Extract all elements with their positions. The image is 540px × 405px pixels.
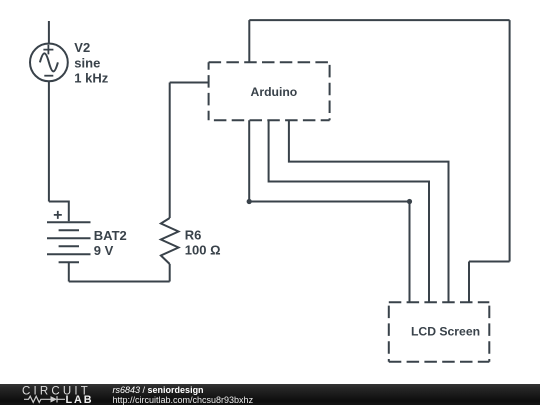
- svg-text:R6: R6: [185, 228, 202, 243]
- battery plus sign: [54, 211, 62, 219]
- wire resistor bottom lead: [169, 264, 171, 282]
- svg-text:sine: sine: [74, 55, 100, 70]
- wire jog left: [469, 261, 510, 263]
- footer bar: [0, 384, 540, 405]
- svg-text:LAB: LAB: [66, 394, 94, 405]
- svg-text:100 Ω: 100 Ω: [185, 243, 221, 258]
- voltage source V2 circle: [30, 44, 68, 82]
- svg-text:Arduino: Arduino: [251, 85, 298, 99]
- wire battery bottom lead: [68, 262, 70, 281]
- wire V2 top lead: [48, 21, 50, 44]
- footer line 1: [113, 386, 204, 396]
- V2 plus sign: [43, 45, 53, 55]
- resistor R6 zigzag: [161, 218, 179, 264]
- svg-text:V2: V2: [74, 40, 90, 55]
- LCD Screen box dashed bottom edge: [389, 361, 490, 363]
- Arduino box dashed bottom edge: [209, 119, 330, 121]
- wire Arduino pin C run: [289, 120, 449, 302]
- svg-text:BAT2: BAT2: [94, 228, 127, 243]
- node junction dot A: [247, 199, 252, 204]
- wire to Arduino left: [170, 82, 209, 84]
- wire bottom run: [69, 281, 170, 283]
- wire down to LCD pin4: [468, 262, 470, 303]
- footer line 2: [113, 396, 254, 405]
- svg-text:9 V: 9 V: [94, 243, 114, 258]
- wire Arduino pin B run: [269, 120, 429, 302]
- CircuitLab logo: [0, 384, 110, 405]
- wire Arduino pin A down: [248, 120, 250, 201]
- svg-text:1 kHz: 1 kHz: [74, 70, 108, 85]
- wire resistor top lead: [169, 83, 171, 219]
- Arduino box dashed left edge: [208, 62, 210, 120]
- battery BAT2 plates: [47, 222, 91, 262]
- LCD Screen box dashed left edge: [388, 302, 390, 362]
- Arduino box dashed right edge: [329, 62, 331, 120]
- Arduino box dashed top edge: [209, 61, 330, 63]
- svg-text:LCD Screen: LCD Screen: [411, 325, 480, 339]
- node junction dot B: [407, 199, 412, 204]
- wire pin A horizontal: [249, 201, 409, 203]
- V2 sine symbol: [40, 53, 58, 71]
- wire top run: [249, 19, 509, 21]
- wire V2 bottom lead: [48, 81, 50, 201]
- LCD Screen box dashed right edge: [488, 302, 490, 362]
- wire jog to battery: [49, 202, 69, 222]
- wire Arduino top pin: [248, 20, 250, 62]
- LCD Screen box dashed top edge: [389, 301, 490, 303]
- wire right run down: [509, 20, 511, 261]
- V2 minus sign: [44, 75, 53, 77]
- wire down to LCD pin1: [409, 202, 411, 303]
